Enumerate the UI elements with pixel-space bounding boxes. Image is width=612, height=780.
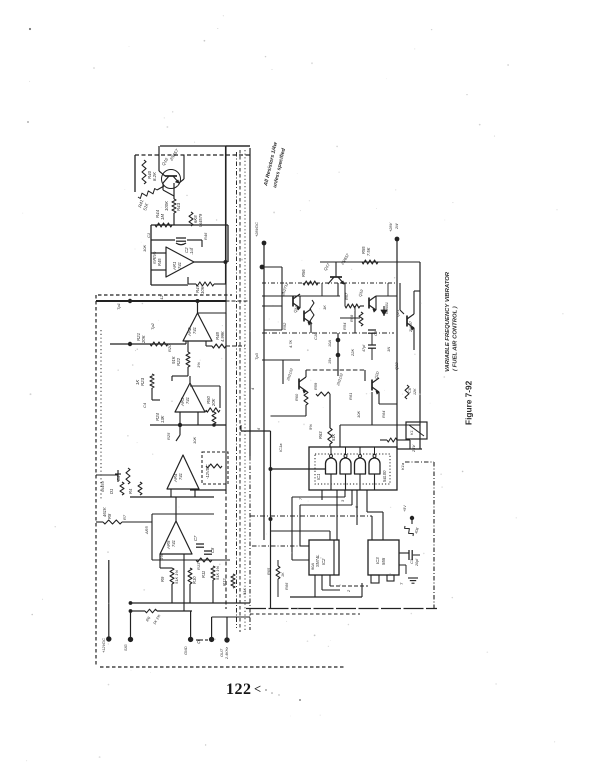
svg-text:D1: D1 [109, 489, 114, 494]
svg-text:.1uf: .1uf [189, 247, 194, 255]
svg-text:Q22: Q22 [394, 362, 399, 370]
svg-text:( FUEL AIR CONTROL ): ( FUEL AIR CONTROL ) [453, 306, 459, 371]
svg-text:51K: 51K [331, 433, 336, 441]
svg-text:R7: R7 [122, 514, 127, 520]
svg-text:R43: R43 [176, 202, 181, 211]
svg-text:C7: C7 [193, 535, 198, 541]
svg-text:51K 1%: 51K 1% [215, 566, 220, 580]
svg-text:R65: R65 [266, 567, 271, 575]
svg-text:Tp2: Tp2 [150, 322, 155, 330]
svg-text:47pf: 47pf [362, 344, 366, 352]
svg-text:1M: 1M [160, 214, 165, 220]
svg-text:20K: 20K [141, 334, 146, 344]
svg-text:8.2K: 8.2K [152, 171, 157, 181]
svg-text:2W: 2W [395, 223, 399, 230]
svg-text:C10: C10 [313, 332, 318, 340]
svg-text:+28V: +28V [388, 222, 393, 232]
svg-text:R63: R63 [318, 431, 323, 439]
svg-text:R56: R56 [301, 269, 306, 277]
svg-text:51K 1%: 51K 1% [174, 570, 179, 584]
svg-text:Tp3: Tp3 [254, 352, 259, 360]
svg-text:R60: R60 [294, 393, 299, 401]
svg-text:2N657: 2N657 [409, 320, 413, 333]
svg-text:-12VDC: -12VDC [205, 464, 210, 479]
svg-text:SN74L: SN74L [315, 554, 320, 567]
svg-text:R61: R61 [348, 393, 353, 400]
svg-text:R54: R54 [342, 322, 347, 330]
svg-text:7.5K: 7.5K [366, 247, 371, 256]
svg-text:SIG: SIG [123, 644, 128, 651]
svg-text:+5V: +5V [403, 505, 407, 512]
svg-text:54L00: 54L00 [382, 470, 387, 482]
svg-text:1%: 1% [159, 554, 164, 560]
svg-text:R46: R46 [203, 232, 208, 240]
svg-text:2.4KHz: 2.4KHz [225, 647, 229, 660]
svg-text:90A: 90A [310, 563, 315, 570]
svg-text:15s: 15s [327, 358, 332, 364]
svg-text:1%: 1% [196, 362, 201, 368]
svg-text:R45: R45 [157, 258, 162, 266]
svg-text:13K: 13K [160, 415, 165, 423]
svg-text:IC2: IC2 [321, 558, 326, 565]
svg-text:C8: C8 [210, 547, 215, 553]
svg-text:741: 741 [177, 262, 182, 269]
svg-text:4.7K: 4.7K [288, 339, 293, 348]
svg-text:C3: C3 [409, 558, 414, 564]
svg-text:R22: R22 [176, 357, 181, 366]
svg-text:OUT: OUT [219, 648, 224, 657]
svg-text:10K: 10K [200, 285, 205, 294]
svg-text:Tp1: Tp1 [116, 303, 121, 310]
svg-text:IC1a: IC1a [278, 443, 283, 452]
svg-text:+12: +12 [159, 294, 164, 302]
svg-text:R20: R20 [167, 344, 172, 352]
svg-text:Q21: Q21 [395, 310, 400, 317]
svg-text:Figure 7-92: Figure 7-92 [464, 380, 474, 425]
svg-text:GND: GND [183, 646, 188, 655]
svg-text:741: 741 [171, 540, 176, 547]
svg-text:20pf: 20pf [415, 558, 419, 567]
svg-text:+28VDC: +28VDC [254, 222, 259, 237]
svg-text:R13: R13 [196, 562, 201, 570]
svg-text:R9: R9 [160, 576, 165, 582]
svg-text:122: 122 [226, 681, 252, 698]
svg-text:1N: 1N [386, 347, 391, 352]
svg-text:+12VDC: +12VDC [101, 638, 106, 653]
svg-text:5%: 5% [308, 424, 313, 430]
svg-text:IN4001: IN4001 [385, 302, 389, 314]
svg-text:R59: R59 [313, 382, 318, 390]
svg-text:91K: 91K [171, 355, 176, 364]
svg-text:10K: 10K [356, 411, 361, 418]
svg-text:K1a: K1a [400, 462, 405, 470]
svg-text:R52: R52 [282, 322, 287, 330]
svg-text:20K: 20K [211, 398, 216, 407]
svg-text:IC3: IC3 [375, 557, 380, 564]
svg-text:741: 741 [185, 397, 190, 404]
svg-text:C6: C6 [407, 387, 412, 393]
svg-text:<: < [254, 682, 261, 696]
svg-text:741: 741 [192, 327, 197, 334]
svg-text:R10: R10 [192, 576, 197, 584]
svg-text:1K: 1K [280, 572, 285, 577]
svg-text:12K: 12K [413, 388, 417, 395]
svg-text:24V: 24V [411, 445, 416, 453]
svg-text:AR5: AR5 [144, 525, 149, 535]
svg-text:R11: R11 [201, 571, 206, 578]
svg-text:R66: R66 [284, 582, 289, 590]
svg-text:R4: R4 [128, 488, 133, 494]
svg-text:R25: R25 [166, 432, 171, 440]
svg-text:C4: C4 [142, 402, 147, 408]
svg-text:K1: K1 [409, 430, 414, 435]
svg-text:VARIABLE FREQUENCY VIBRATOR: VARIABLE FREQUENCY VIBRATOR [445, 271, 451, 372]
svg-text:C1: C1 [146, 233, 151, 238]
svg-text:10K: 10K [142, 245, 147, 252]
svg-text:G: G [197, 640, 201, 645]
svg-text:22K: 22K [350, 349, 355, 357]
svg-text:10K: 10K [192, 437, 197, 444]
svg-text:555: 555 [381, 557, 386, 565]
svg-text:IC1: IC1 [316, 474, 321, 480]
svg-text:R8: R8 [107, 513, 112, 519]
svg-text:1K: 1K [322, 305, 327, 310]
svg-text:51K: 51K [242, 588, 247, 595]
svg-text:IN4579: IN4579 [198, 213, 203, 227]
svg-text:100K: 100K [164, 200, 169, 211]
svg-text:4.99K: 4.99K [220, 331, 225, 342]
svg-text:10A: 10A [327, 340, 332, 347]
svg-text:R23: R23 [140, 377, 145, 386]
svg-text:R64: R64 [381, 410, 386, 418]
